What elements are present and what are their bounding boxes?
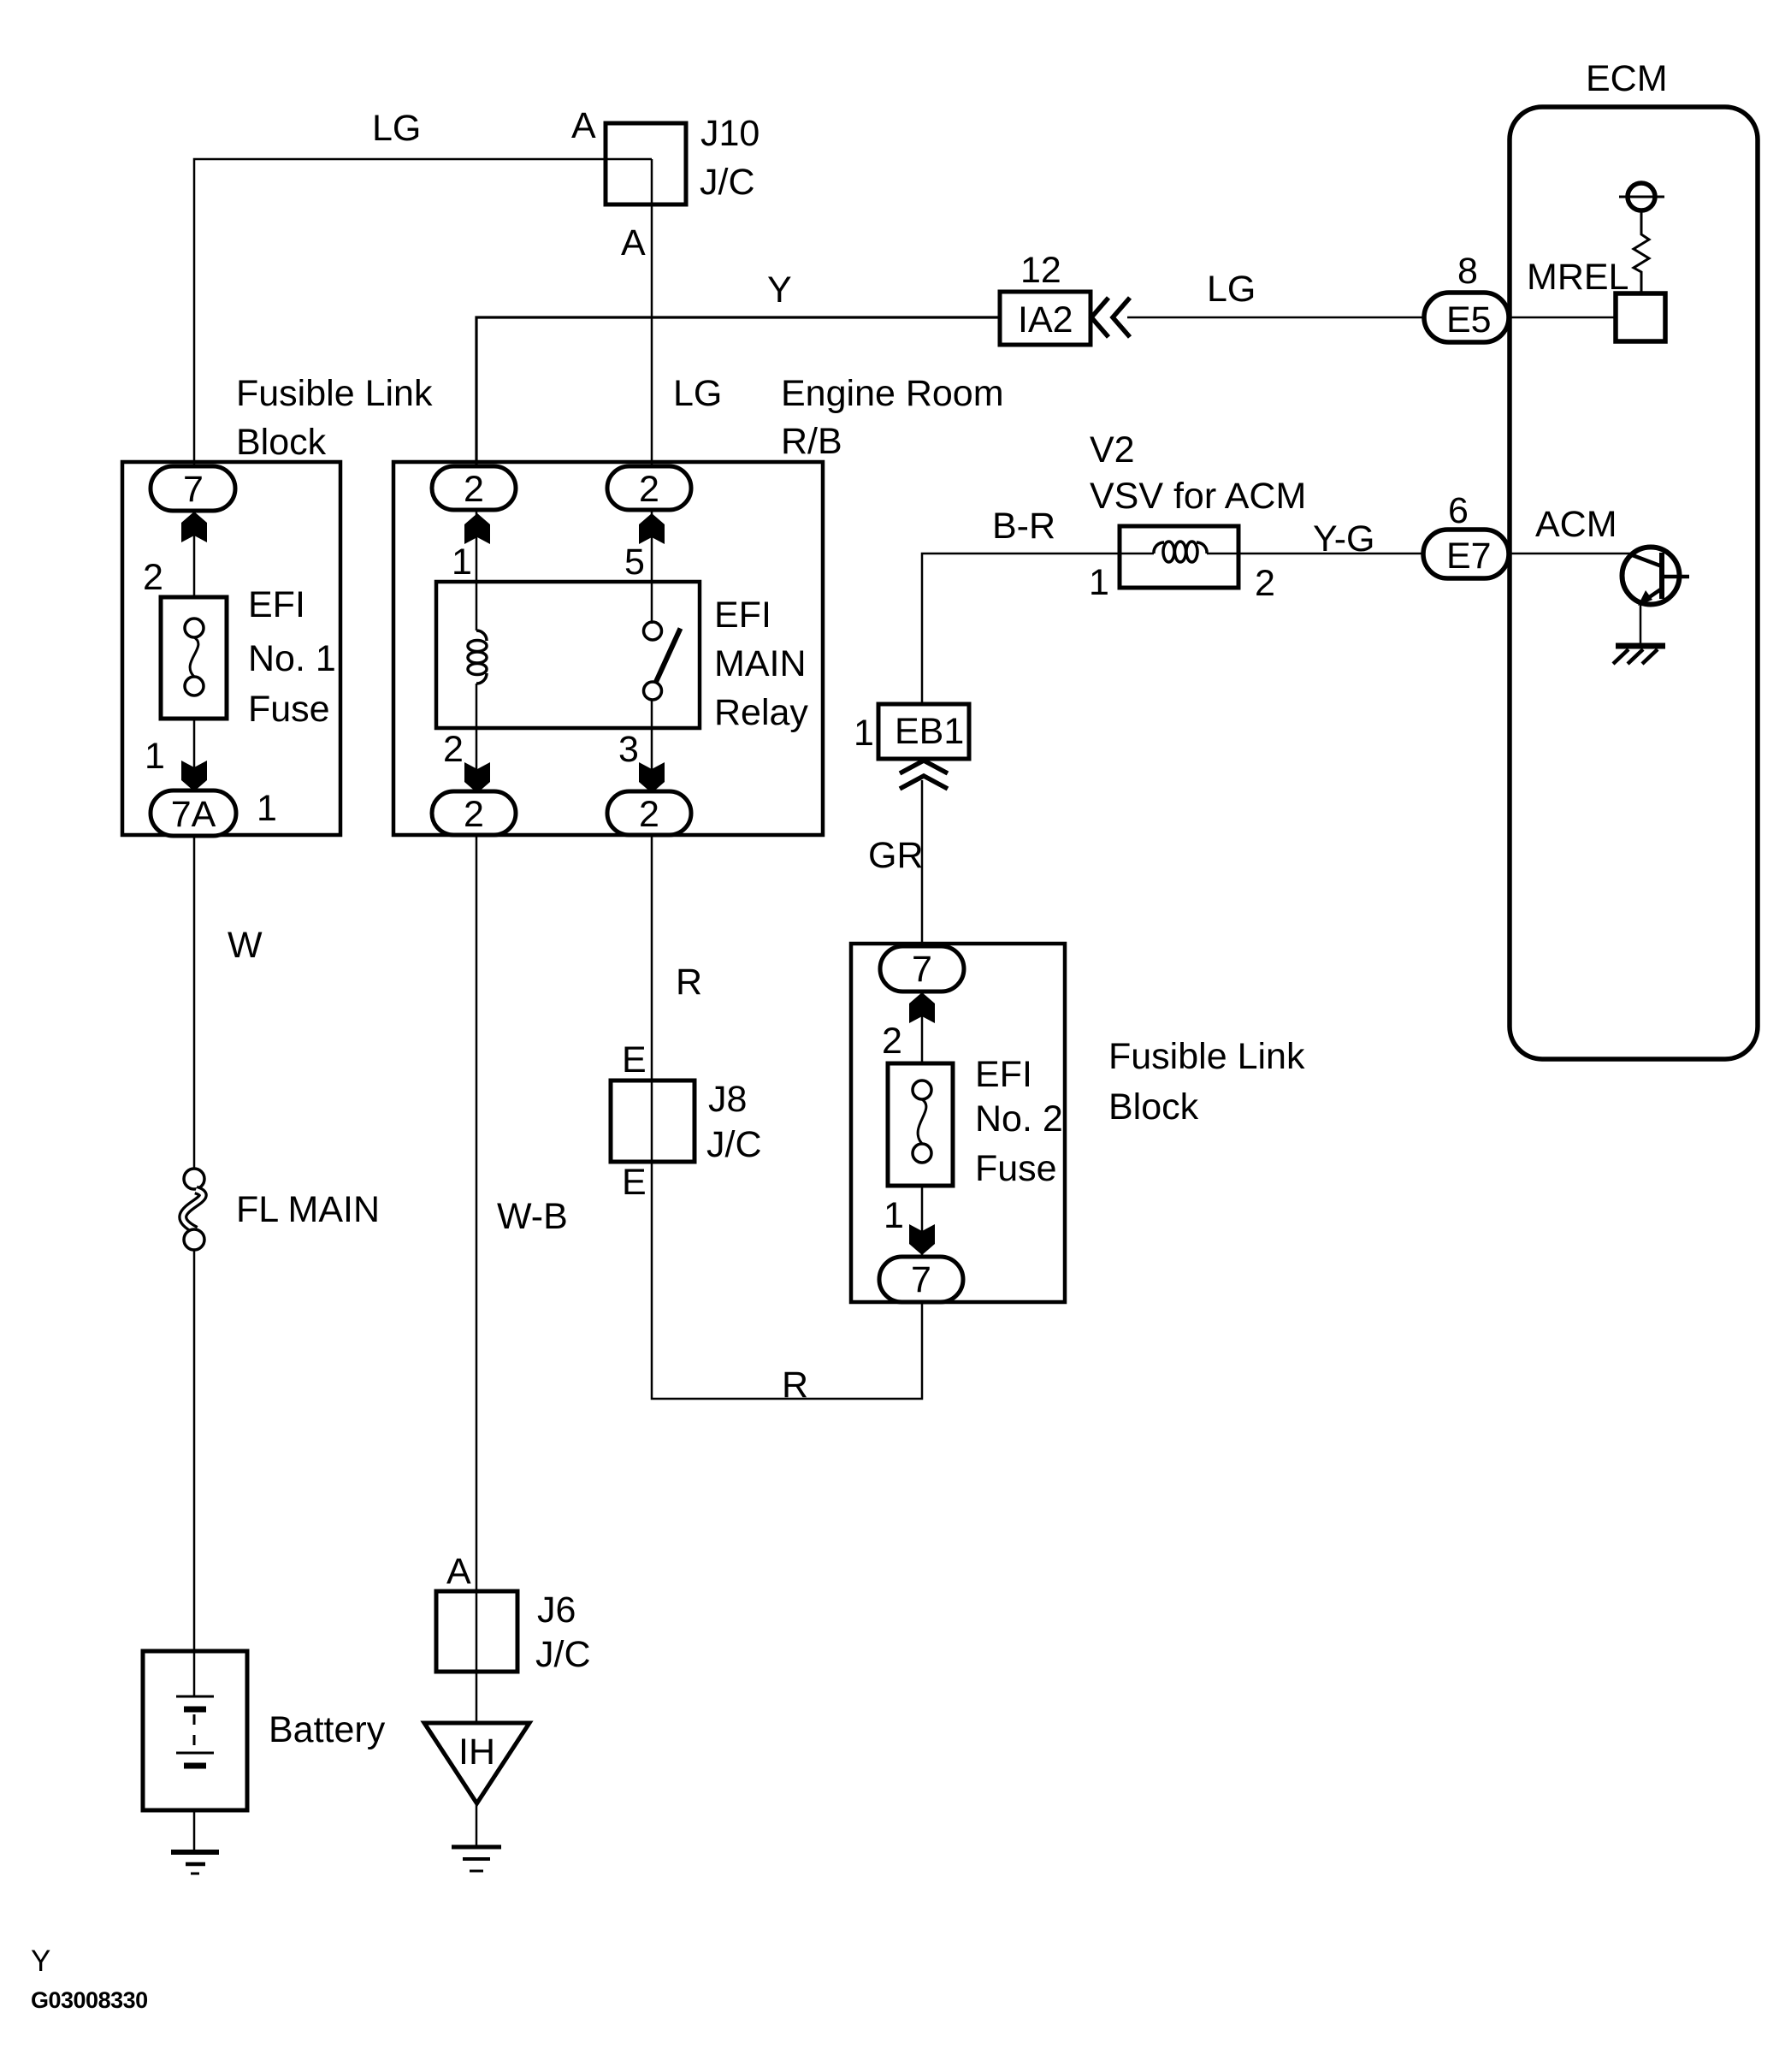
MREL driver square — [1616, 293, 1665, 341]
svg-text:Fusible Link: Fusible Link — [1108, 1036, 1305, 1077]
svg-text:G03008330: G03008330 — [31, 1987, 148, 2013]
connector oval 2 R/B bottom-left — [432, 791, 516, 835]
wire emitter to chassis ground — [1640, 604, 1642, 646]
svg-text:ECM: ECM — [1586, 58, 1668, 99]
transistor base lead — [1630, 554, 1662, 566]
svg-text:Block: Block — [236, 422, 327, 463]
connector oval 7 block2 bottom — [879, 1257, 963, 1302]
relay switch top contact — [644, 622, 662, 640]
fuse EFI No.1 top terminal — [185, 619, 204, 637]
ground triangle IH — [424, 1723, 529, 1803]
wire switch to bottom oval — [651, 700, 653, 814]
arrow down block2 — [909, 1224, 935, 1255]
wire inside relay left leg — [476, 511, 478, 630]
svg-text:Battery: Battery — [269, 1709, 386, 1750]
svg-text:IH: IH — [458, 1732, 495, 1773]
transistor base bar — [1659, 553, 1664, 599]
wire Battery to ground — [193, 1768, 196, 1852]
svg-text:LG: LG — [1207, 269, 1256, 310]
transistor emitter with arrow — [1646, 589, 1662, 600]
ground symbol below battery — [171, 1850, 219, 1855]
wire FL MAIN to Battery — [193, 1250, 196, 1696]
svg-text:Y-G: Y-G — [1313, 518, 1375, 559]
svg-text:7A: 7A — [171, 794, 216, 835]
Fusible Link Block 1 outline — [122, 462, 340, 835]
relay coil — [468, 630, 487, 684]
wire GR from EB1 chevron to Fusible Link Block 2 pin 7 — [921, 780, 924, 968]
Battery box — [143, 1651, 247, 1810]
connector oval 7 block1 — [151, 466, 235, 511]
chevron arrows below EB1 — [900, 761, 948, 789]
svg-text:2: 2 — [639, 794, 659, 835]
svg-text:LG: LG — [372, 108, 421, 149]
svg-text:2: 2 — [464, 794, 484, 835]
fusible link FL MAIN top terminal — [184, 1169, 204, 1189]
svg-text:VSV for ACM: VSV for ACM — [1090, 476, 1306, 517]
svg-text:5: 5 — [624, 542, 645, 583]
wire LG from Fusible Link Block 1 to J10 — [194, 159, 652, 488]
svg-text:1: 1 — [884, 1195, 904, 1236]
arrow up block2 — [909, 992, 935, 1023]
svg-text:2: 2 — [882, 1021, 902, 1062]
svg-text:J6: J6 — [537, 1590, 576, 1631]
svg-text:Fuse: Fuse — [975, 1148, 1057, 1189]
relay switch blade — [656, 629, 681, 684]
wire from E5 into ECM to MREL square — [1509, 317, 1616, 319]
wire relay left leg to bottom oval — [476, 684, 478, 814]
wire fuse1 to 7A oval — [193, 695, 196, 790]
Fusible Link Block 2 outline — [851, 944, 1065, 1302]
connector oval 7A block1 — [151, 790, 236, 836]
battery top lead — [193, 1651, 196, 1696]
arrow down R/B pin2 — [464, 762, 490, 793]
svg-text:MREL: MREL — [1527, 257, 1628, 298]
battery plate long 1 — [176, 1696, 214, 1698]
wire fuse2 to bottom 7 oval — [921, 1162, 924, 1257]
svg-text:MAIN: MAIN — [714, 643, 807, 684]
fusible link FL MAIN element — [183, 1190, 203, 1230]
svg-text:Relay: Relay — [714, 692, 808, 733]
battery dashed separator — [193, 1714, 196, 1751]
battery plate long 2 — [176, 1752, 214, 1755]
svg-text:GR: GR — [868, 835, 924, 876]
MREL B+ terminal circle — [1628, 183, 1655, 210]
connector oval E5 — [1424, 293, 1509, 342]
svg-text:2: 2 — [1255, 563, 1275, 604]
connector oval 2 R/B bottom-right — [607, 791, 691, 835]
fuse EFI No.1 bottom terminal — [185, 677, 204, 696]
battery plate short 2 — [184, 1763, 206, 1769]
svg-text:B-R: B-R — [992, 506, 1055, 547]
VSV for ACM coil box V2 — [1120, 526, 1238, 588]
wire IH to ground — [476, 1803, 478, 1848]
arrow up block1 — [181, 512, 207, 542]
wire inside block1 pin7 to fuse1 — [193, 511, 196, 619]
wire B-R from EB1 branch to VSV — [922, 554, 1120, 704]
svg-text:J8: J8 — [708, 1079, 747, 1120]
VSV coil winding — [1154, 542, 1207, 562]
svg-text:Fusible Link: Fusible Link — [236, 373, 433, 414]
wire A from J10 down to Engine Room R/B pin 5 oval — [651, 159, 653, 488]
svg-text:2: 2 — [443, 729, 464, 770]
svg-text:1: 1 — [257, 788, 277, 829]
svg-text:E: E — [622, 1039, 647, 1080]
svg-text:3: 3 — [618, 729, 639, 770]
svg-text:J/C: J/C — [700, 162, 755, 203]
Engine Room R/B outline — [393, 462, 823, 835]
wire inside relay right leg to switch — [651, 511, 653, 624]
svg-text:Engine Room: Engine Room — [781, 373, 1004, 414]
arrow down R/B pin3 — [639, 762, 665, 793]
fuse EFI No.2 body — [888, 1063, 953, 1186]
arrow up R/B pin5 — [639, 513, 665, 544]
svg-text:1: 1 — [854, 713, 874, 754]
svg-text:1: 1 — [452, 542, 472, 583]
wire W from 7A to FL MAIN fuse — [193, 814, 196, 1169]
connector box IA2 — [1000, 292, 1091, 345]
svg-text:7: 7 — [912, 949, 932, 990]
svg-text:Y: Y — [31, 1945, 50, 1978]
MREL resistor — [1634, 210, 1649, 293]
svg-text:7: 7 — [183, 469, 204, 510]
svg-text:V2: V2 — [1090, 429, 1135, 471]
battery plate short 1 — [184, 1707, 206, 1713]
svg-text:1: 1 — [1089, 562, 1109, 603]
svg-text:E5: E5 — [1446, 299, 1492, 340]
connector oval 2 R/B top-left — [432, 466, 516, 510]
transistor collector stub — [1662, 575, 1689, 579]
svg-text:EFI: EFI — [975, 1054, 1032, 1095]
ACM transistor circle — [1623, 548, 1680, 605]
svg-text:LG: LG — [673, 373, 722, 414]
svg-text:E7: E7 — [1446, 536, 1492, 577]
svg-text:A: A — [621, 222, 646, 263]
wire W-B from R/B to J6 and IH — [476, 836, 478, 1723]
svg-text:W-B: W-B — [497, 1196, 568, 1237]
wire Y from R/B pin 1 branch to IA2 — [476, 317, 1000, 488]
connector box EB1 — [878, 704, 969, 759]
fuse EFI No.2 element — [918, 1099, 926, 1144]
svg-text:2: 2 — [143, 557, 163, 598]
svg-text:A: A — [446, 1551, 471, 1592]
fuse EFI No.2 top terminal — [913, 1080, 931, 1099]
svg-text:EFI: EFI — [248, 584, 305, 625]
fuse EFI No.1 element — [190, 637, 198, 677]
svg-text:Fuse: Fuse — [248, 689, 330, 730]
svg-text:8: 8 — [1457, 251, 1478, 292]
chevron arrows at IA2 — [1091, 298, 1130, 337]
svg-text:EB1: EB1 — [895, 711, 964, 752]
svg-text:FL MAIN: FL MAIN — [236, 1189, 380, 1230]
svg-text:J10: J10 — [700, 113, 760, 154]
svg-text:E: E — [622, 1162, 647, 1203]
svg-text:No. 2: No. 2 — [975, 1098, 1063, 1140]
svg-text:IA2: IA2 — [1018, 299, 1073, 340]
ground symbol below IH — [452, 1845, 501, 1850]
fuse EFI No.2 bottom terminal — [913, 1144, 931, 1163]
chassis ground at ACM — [1616, 643, 1665, 649]
svg-text:R: R — [782, 1365, 808, 1406]
svg-text:ACM: ACM — [1535, 504, 1617, 545]
connector oval 2 R/B top-right — [607, 466, 691, 510]
svg-text:R/B: R/B — [781, 421, 842, 462]
connector oval E7 — [1423, 530, 1509, 578]
svg-text:2: 2 — [639, 469, 659, 510]
junction connector J8 — [611, 1080, 695, 1162]
svg-text:R: R — [676, 962, 702, 1003]
svg-text:W: W — [228, 925, 263, 966]
ECM outline — [1510, 107, 1758, 1059]
svg-text:EFI: EFI — [714, 595, 771, 636]
svg-text:Block: Block — [1108, 1086, 1199, 1128]
fusible link FL MAIN bottom terminal — [184, 1229, 204, 1250]
svg-text:1: 1 — [145, 736, 165, 777]
connector oval 7 block2 top — [880, 946, 964, 992]
svg-text:A: A — [571, 105, 596, 146]
svg-text:2: 2 — [464, 469, 484, 510]
arrow down block1 — [181, 761, 207, 791]
svg-text:6: 6 — [1448, 490, 1469, 531]
svg-text:J/C: J/C — [706, 1124, 762, 1165]
svg-text:Y: Y — [767, 269, 792, 311]
junction connector J10 — [606, 123, 686, 204]
wire Y-G from VSV to E7 — [1238, 553, 1423, 555]
svg-text:7: 7 — [911, 1259, 931, 1300]
wire R from relay pin 3 through J8 down and right to Fusible Link Block 2 — [652, 836, 922, 1399]
fuse EFI No.1 body — [161, 597, 227, 719]
wire inside block2 pin7 to fuse2 — [921, 992, 924, 1081]
svg-text:No. 1: No. 1 — [248, 638, 336, 679]
svg-text:12: 12 — [1020, 250, 1061, 291]
junction connector J6 — [436, 1591, 517, 1672]
relay switch bottom contact — [644, 682, 662, 700]
wire from E7 into ECM to ACM transistor — [1509, 553, 1634, 555]
arrow up R/B pin1 — [464, 513, 490, 544]
relay box EFI MAIN Relay — [436, 582, 700, 728]
svg-text:J/C: J/C — [535, 1634, 591, 1675]
wire LG from IA2 chevron to E5 — [1127, 317, 1423, 319]
